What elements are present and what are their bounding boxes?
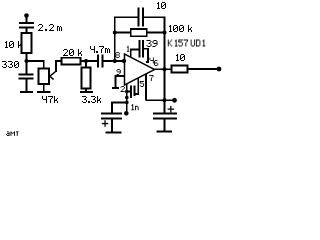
wire C4 to right riser [143, 17, 165, 100]
wire R4 to ground [85, 89, 87, 92]
label 2.2m [38, 24, 62, 31]
label 39 [147, 40, 158, 47]
pin 1 stub [131, 49, 140, 57]
wire rail to C8 [163, 100, 165, 113]
wire C3 to op-amp input [103, 60, 125, 62]
wiper riser wire [56, 61, 62, 72]
resistor R5 100k [131, 29, 147, 36]
pin 4 stub wire [143, 49, 148, 62]
label 47k [42, 96, 58, 103]
ground bar pin9 [112, 87, 119, 89]
node J2 [84, 59, 88, 63]
rail terminal dot [172, 98, 177, 103]
wire 20k to C3 [81, 60, 99, 62]
resistor R1 10k [22, 33, 32, 53]
pin 9 label [117, 69, 121, 75]
wire C1 to R1 [26, 28, 28, 34]
label 10k [5, 41, 22, 48]
label 4.7m [90, 46, 110, 53]
node 100k left [113, 31, 117, 35]
wire J1 to pot top [27, 61, 44, 69]
resistor R4 3.3k [82, 68, 91, 89]
ground bar pot [37, 91, 51, 93]
label 3.3k [82, 96, 101, 103]
wire J2 down to R4 [85, 61, 87, 68]
label 10 output resistor [176, 54, 185, 61]
pin 1 label [127, 46, 130, 52]
output wire [154, 68, 172, 70]
resistor R3 20k [62, 58, 81, 65]
wire to C6 [127, 91, 131, 93]
pin 7 stub wire [145, 74, 147, 100]
label 10 feedback cap [157, 2, 166, 9]
node J1 [25, 59, 29, 63]
node rail [162, 98, 166, 102]
capacitor C2 330 [19, 75, 34, 79]
wire terminal to C1 [26, 16, 28, 23]
node feedback tap [113, 59, 117, 63]
label K157UD1 [168, 40, 205, 47]
wire R1 to node J1 [26, 53, 28, 75]
feedback riser wire [115, 17, 139, 61]
pin 8 label [116, 52, 120, 58]
node 100k right [163, 31, 167, 35]
wire pot to ground [43, 84, 45, 92]
wire C8 to ground [163, 119, 165, 132]
pin 7 label [149, 75, 153, 81]
wire 100k right [147, 32, 165, 34]
node output [163, 67, 167, 71]
pin 2 wire [126, 84, 128, 114]
pin 4 label [150, 58, 154, 64]
capacitor C7 electrolytic [101, 113, 122, 118]
pin 5 label [140, 81, 144, 87]
ground bar C2 [20, 91, 33, 93]
wire R6 to output terminal [188, 68, 220, 70]
label plus C7 [102, 120, 109, 127]
label 20k [63, 49, 82, 56]
wire pin2 node to electrolytic C7 [112, 102, 127, 113]
label 100k [169, 25, 192, 32]
wire 100k left [115, 32, 131, 34]
resistor R6 10 [172, 66, 188, 73]
output terminal dot [217, 67, 222, 72]
capacitor C1 2.2m [19, 23, 34, 28]
capacitor C4 10 [139, 8, 143, 27]
pin 5 stub wire [135, 78, 139, 94]
capacitor C8 electrolytic [153, 113, 177, 118]
pin 9 wire [116, 76, 125, 88]
capacitor C6 1n [131, 86, 135, 99]
wire C7 to ground [111, 119, 113, 133]
potentiometer R2 47k body [39, 69, 50, 85]
pot wiper arrow [50, 71, 56, 79]
capacitor C3 4.7m [98, 55, 103, 68]
capacitor C5 39 [140, 40, 144, 58]
bottom rail wire [146, 99, 175, 101]
pin 2 label [121, 86, 125, 92]
node junction bottom [125, 101, 129, 105]
ground bar C8 [157, 131, 173, 133]
node pin2 cap [125, 90, 129, 94]
wire C2 to ground [26, 79, 28, 92]
ground bar C7 [106, 131, 122, 133]
ground bar R4 [80, 91, 93, 93]
pin 6 label [154, 60, 158, 66]
node pin2 lower [125, 96, 129, 100]
watermark amt [6, 131, 19, 136]
terminal dot bottom [124, 111, 129, 116]
input terminal dot [24, 13, 29, 18]
label 1n [131, 104, 138, 110]
op-amp U1 triangle [125, 54, 155, 85]
node pin8 input [122, 59, 126, 63]
label plus C8 [168, 106, 175, 113]
label 330 [2, 61, 19, 68]
